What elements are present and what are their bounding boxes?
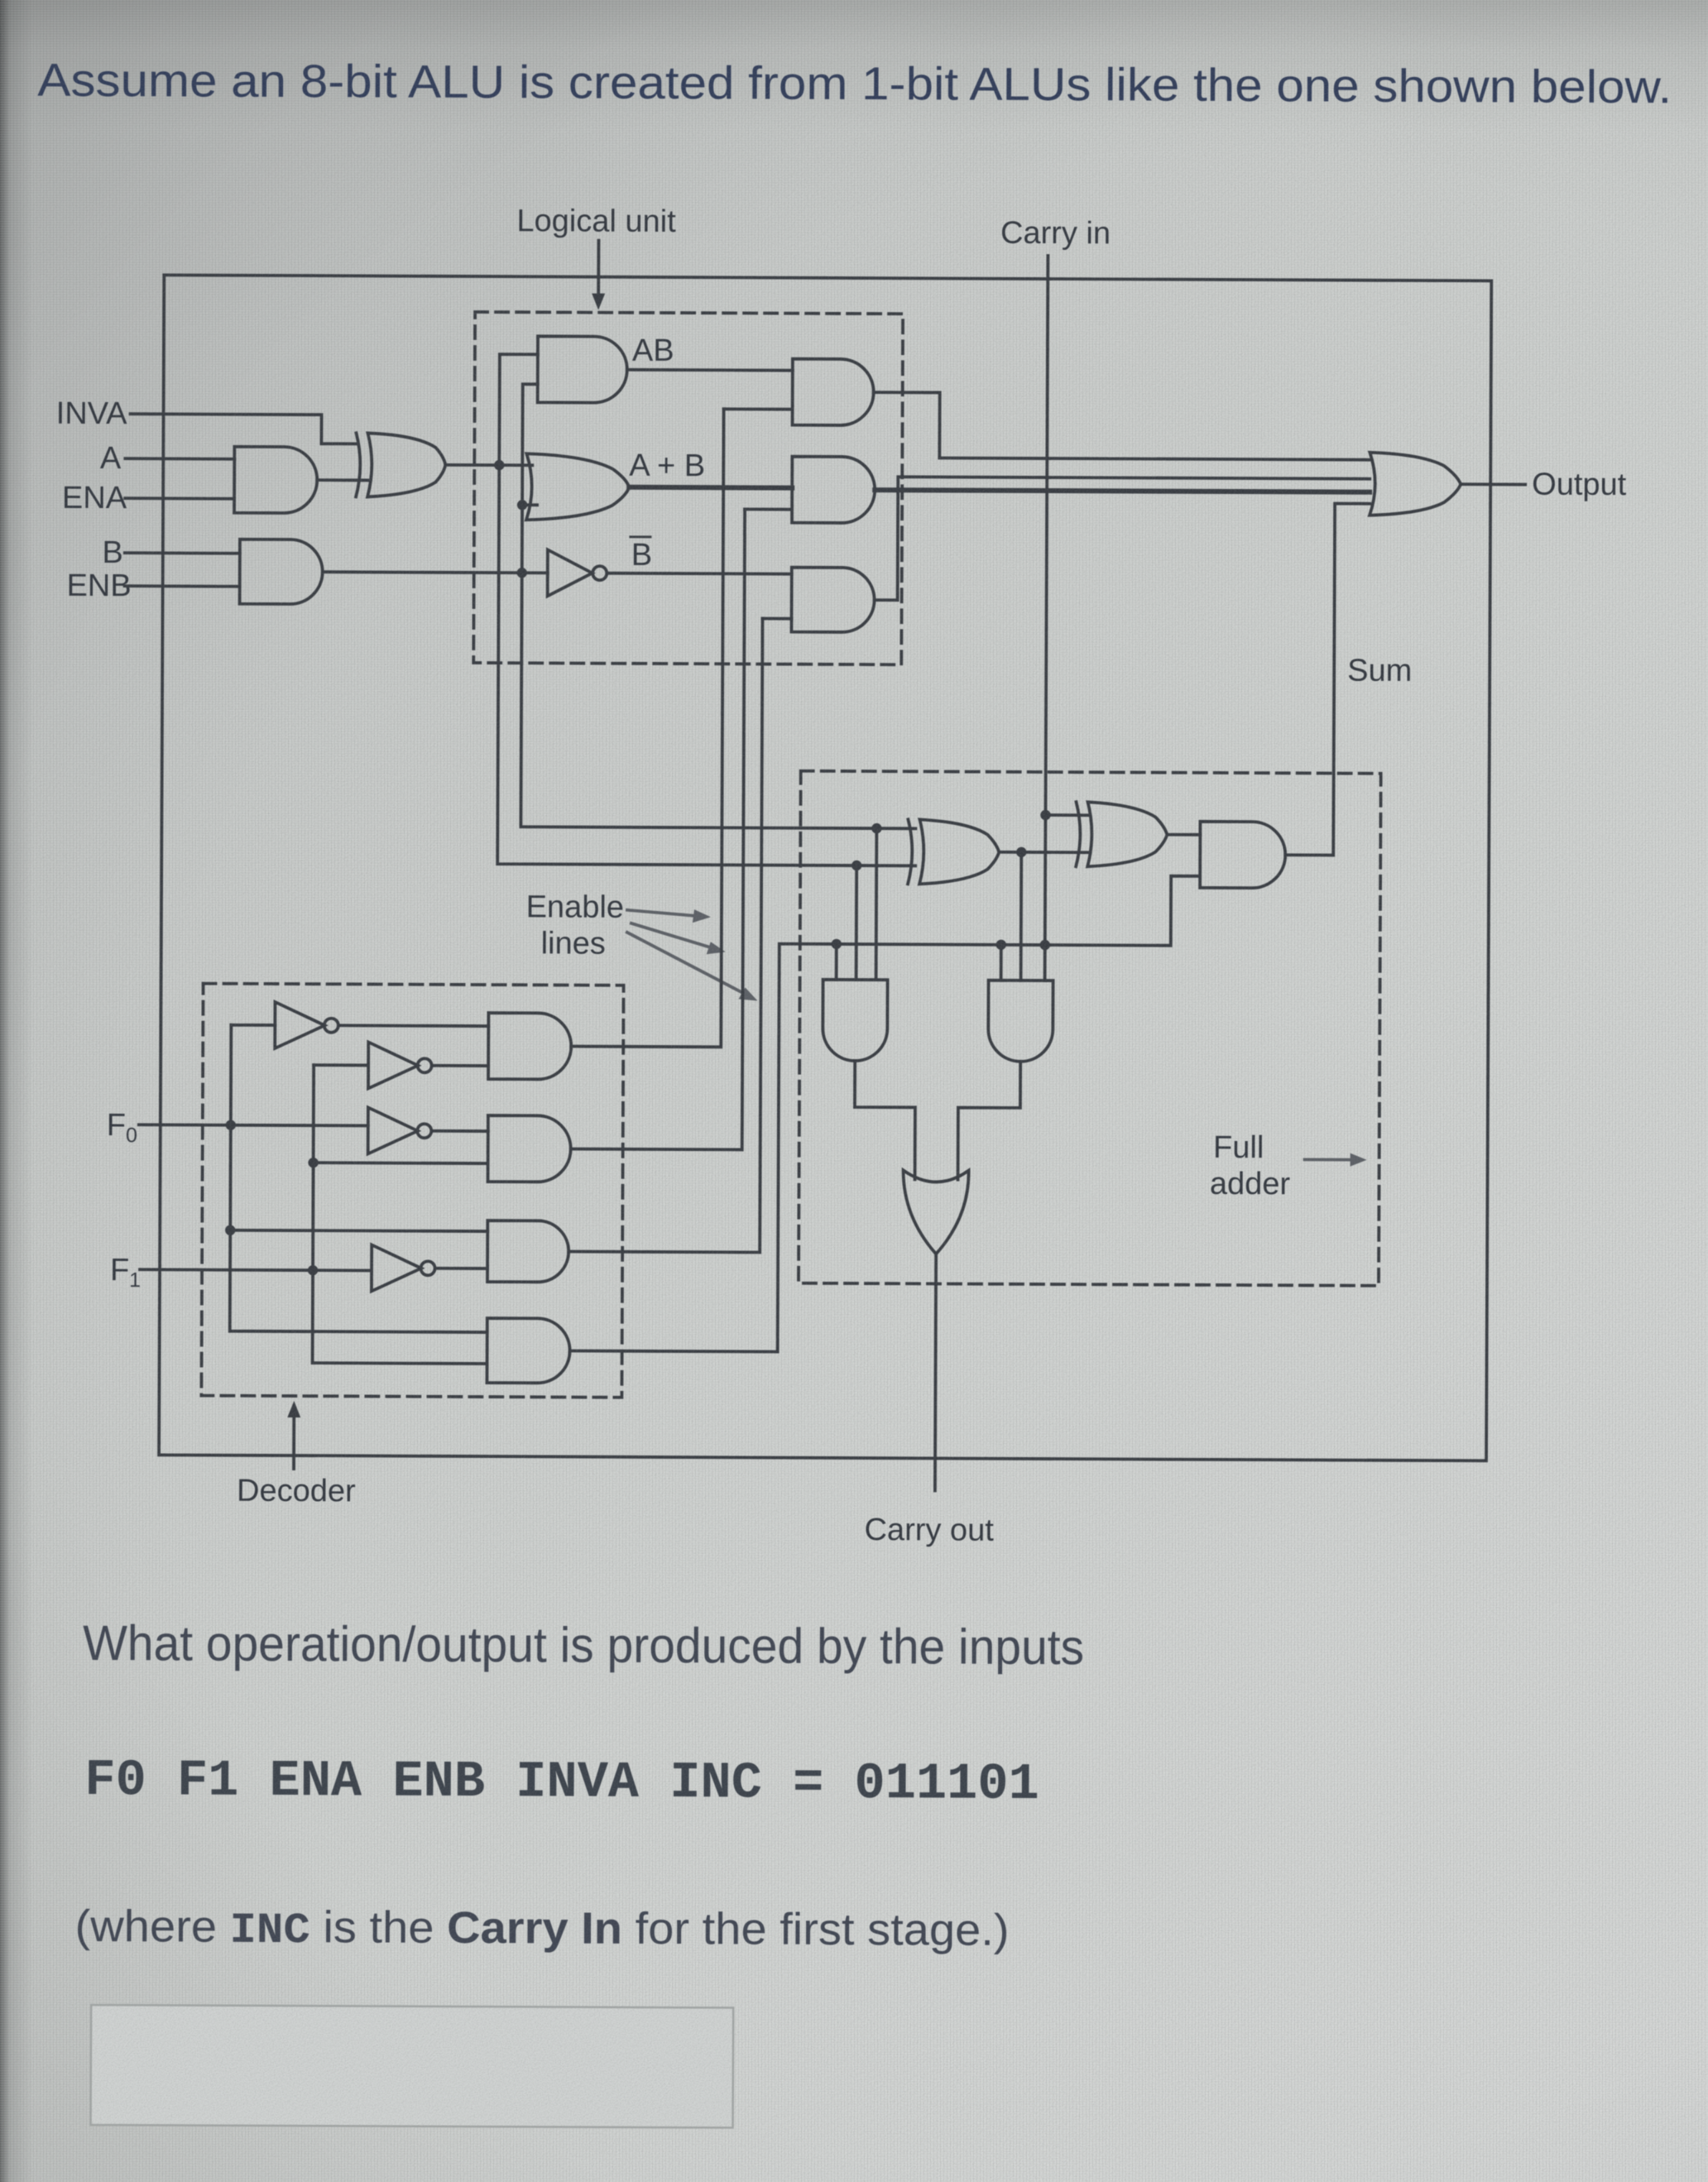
label Full adder [1210, 1130, 1291, 1201]
wire V2 vertical B-prime [521, 384, 917, 828]
wire AB out [627, 368, 793, 372]
xor-gate INVA stage [356, 433, 445, 496]
junction line3 and2fa [996, 940, 1006, 950]
svg-text:Assume an 8-bit ALU is created: Assume an 8-bit ALU is created from 1-bi… [37, 54, 1672, 113]
full adder dashed box [799, 771, 1381, 1286]
svg-text:A: A [100, 441, 122, 476]
or-gate output [1370, 453, 1461, 516]
label Enable lines [525, 890, 624, 962]
wire and2fa to or [958, 1062, 1021, 1180]
wire F1 distribution vertical [313, 1065, 489, 1364]
wire A [125, 457, 234, 460]
and-gate AB [538, 336, 627, 402]
and-gate B.ENB [240, 540, 323, 604]
wire inv3 out [432, 1129, 488, 1133]
junction F0 andc tap [225, 1225, 235, 1235]
and-gate dec-c [487, 1220, 569, 1282]
and-gate L3 enable B-bar [791, 568, 874, 632]
wire enable1 riser [571, 409, 723, 1048]
arrow full adder [1305, 1153, 1367, 1166]
svg-text:INVA: INVA [56, 396, 128, 431]
answer box [91, 2005, 734, 2127]
wire sum to output-or [1285, 503, 1370, 855]
xor-gate FA1 [908, 819, 999, 884]
junction line2 drop [852, 861, 861, 870]
svg-text:Full: Full [1213, 1130, 1264, 1165]
svg-text:F1: F1 [110, 1253, 141, 1292]
wire enable3 stub [762, 617, 791, 621]
svg-text:Output: Output [1532, 468, 1627, 502]
wire enable2 stub [745, 508, 792, 511]
wire ENA [125, 496, 234, 500]
wire F1 [140, 1269, 372, 1270]
junction carry-in line3 [1040, 940, 1050, 950]
wire F1 to andb [314, 1161, 488, 1165]
and-gate FA carry1 [823, 980, 887, 1061]
svg-text:lines: lines [541, 926, 606, 961]
not-gate dec4 [372, 1244, 435, 1291]
svg-text:A + B: A + B [629, 448, 705, 483]
junction V2 or-input [517, 500, 527, 510]
and-gate dec-b [488, 1115, 571, 1182]
wire A+B out (selected thick) [629, 485, 792, 491]
svg-text:What operation/output is produ: What operation/output is produced by the… [83, 1615, 1084, 1675]
or-gate A+B [526, 453, 629, 520]
wire B [125, 551, 240, 554]
wire AND_A to xor [317, 478, 367, 482]
wire xor1 out [999, 851, 1087, 854]
wire L1 out staircase [873, 392, 1370, 460]
decoder dashed box [201, 984, 623, 1398]
svg-text:Logical unit: Logical unit [516, 204, 676, 239]
wire inv1 out [338, 1024, 488, 1028]
junction xor1-out drop [1016, 847, 1026, 857]
wire INVA [130, 414, 357, 444]
junction carry-in xor2 tap [1040, 810, 1050, 820]
wire and1fa to or [855, 1061, 916, 1179]
wire enable2 riser [571, 509, 745, 1150]
wire A-prime [445, 463, 532, 467]
wire B-bar out [607, 572, 792, 576]
wire add-enable line3 [778, 875, 1201, 1353]
arrow enable 2 [631, 923, 726, 954]
and-gate FA carry2 [988, 981, 1053, 1062]
wire ENB [125, 584, 240, 587]
logical unit dashed box [473, 312, 903, 664]
wire V1 vertical A-prime [497, 354, 918, 866]
svg-text:F0 F1 ENA ENB INVA INC = 01110: F0 F1 ENA ENB INVA INC = 011101 [84, 1751, 1039, 1814]
and-gate dec-a [488, 1013, 571, 1079]
xor-gate FA2 [1076, 802, 1167, 866]
svg-text:(where INC is the Carry In for: (where INC is the Carry In for the first… [74, 1901, 1009, 1959]
wire inv2 in [314, 1063, 368, 1067]
svg-text:ENA: ENA [62, 481, 127, 516]
not-gate dec3 [368, 1107, 432, 1153]
wire carry-in to xor2 [1045, 813, 1087, 817]
arrow enable 3 [626, 933, 757, 1001]
svg-text:adder: adder [1210, 1167, 1291, 1201]
svg-text:B: B [631, 538, 653, 573]
not-gate dec2 [368, 1042, 432, 1088]
junction F1 andb tap [308, 1158, 318, 1168]
and-gate dec-d [487, 1318, 569, 1383]
outer ALU box [159, 275, 1491, 1460]
wire enable3 riser [569, 618, 762, 1253]
svg-text:B: B [102, 535, 123, 570]
junction A-prime / V1 [494, 460, 504, 470]
svg-text:Carry out: Carry out [864, 1513, 994, 1548]
and-gate L1 enable AB [793, 359, 874, 425]
wire enable1 stub [724, 407, 793, 410]
and-gate L2 enable A+B [792, 457, 875, 523]
wire inv4 out [435, 1267, 487, 1270]
wire drop Aprime to and1fa [875, 828, 879, 980]
arrow logical unit [592, 241, 605, 310]
svg-text:Decoder: Decoder [237, 1474, 356, 1509]
junction V2 B-prime [516, 568, 526, 578]
wire F0 distribution vertical [230, 1025, 489, 1332]
junction line3 and1fa [832, 939, 842, 949]
and-gate A.ENA [234, 447, 317, 513]
or-gate FA carry [903, 1170, 968, 1254]
arrow enable 1 [627, 909, 711, 923]
junction F0 riser [226, 1120, 236, 1129]
svg-text:Carry in: Carry in [1000, 216, 1111, 252]
wire output [1461, 482, 1525, 486]
wire enable4 add [570, 1351, 778, 1352]
junction F1 riser [308, 1265, 318, 1275]
wire carry out [935, 1254, 936, 1490]
wire V2 to or-gate lower input [522, 503, 537, 506]
junction line1 drop [871, 823, 881, 833]
not-gate dec1 [275, 1002, 338, 1048]
wire xor2 out [1167, 833, 1200, 837]
wire L3 out staircase [875, 477, 1370, 602]
wire B-prime [324, 572, 548, 573]
svg-text:ENB: ENB [66, 568, 131, 603]
wire inv2 out [432, 1064, 488, 1067]
svg-text:Sum: Sum [1347, 654, 1412, 688]
wire L2 out (selected thick) [875, 490, 1370, 492]
wire drop xor1 to and2fa [1020, 852, 1023, 981]
and-gate FA sum enable [1200, 822, 1285, 888]
wire drop en to and2fa [1000, 945, 1003, 981]
wire inv1 in [231, 1024, 275, 1027]
wire carry-in vertical [1045, 256, 1048, 981]
not-gate B inverter [548, 549, 607, 596]
svg-text:F0: F0 [107, 1108, 137, 1147]
svg-text:Enable: Enable [526, 890, 625, 925]
wire drop en to and1fa [835, 944, 838, 980]
svg-text:AB: AB [632, 333, 674, 368]
wire F0 [139, 1125, 368, 1125]
arrow decoder [287, 1401, 300, 1469]
label B-bar [631, 537, 653, 573]
wire drop Bprime to and1fa [855, 866, 858, 980]
wire F0 to andc [230, 1230, 487, 1231]
